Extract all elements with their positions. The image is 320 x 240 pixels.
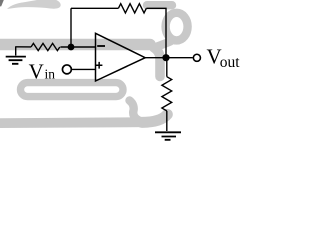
svg-text:out: out (220, 54, 241, 71)
svg-text:V: V (29, 60, 44, 84)
svg-text:in: in (45, 67, 56, 82)
